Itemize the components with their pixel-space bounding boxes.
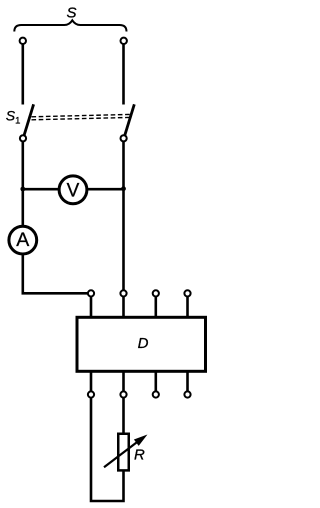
brace over switch S — [14, 20, 126, 31]
wire left from terminal to switch — [21, 41, 24, 105]
D top terminal 4 — [184, 290, 190, 296]
D bottom terminal 3 — [153, 391, 159, 397]
switch S1 left pole blade — [24, 104, 34, 136]
junction node left — [20, 187, 25, 192]
D bottom terminal 1 — [88, 391, 94, 397]
stub D top terminal 3 — [155, 293, 158, 318]
svg-text:D: D — [138, 335, 149, 352]
stub D bottom terminal 1 — [90, 371, 93, 394]
ammeter A — [9, 226, 37, 254]
junction node right — [121, 186, 126, 191]
stub D top terminal 2 — [122, 293, 125, 318]
wire loop from D bottom terminal 1 to resistor bottom — [91, 398, 124, 502]
device box D — [77, 317, 206, 371]
wire left from switch down to corner and to D terminal 1 — [23, 138, 91, 293]
resistor R body — [118, 434, 129, 471]
D top terminal 3 — [153, 290, 159, 296]
terminal right of S — [121, 38, 127, 44]
wire of voltmeter branch — [23, 188, 124, 191]
svg-text:S1: S1 — [6, 108, 21, 127]
svg-text:S: S — [66, 5, 76, 22]
wire right from switch down to D terminal 2 — [122, 138, 125, 293]
stub D top terminal 4 — [186, 293, 189, 318]
terminal left of S — [20, 38, 26, 44]
D top terminal 2 — [120, 290, 126, 296]
D bottom terminal 2 — [120, 391, 126, 397]
svg-text:V: V — [67, 181, 80, 202]
wire from D bottom terminal 2 to resistor top — [122, 398, 125, 437]
D bottom terminal 4 — [184, 391, 190, 397]
resistor R variability arrow shaft — [104, 442, 137, 467]
switch S1 right pole terminal — [121, 135, 127, 141]
switch S1 coupling dashed link — [32, 114, 132, 119]
stub D top terminal 1 — [90, 293, 93, 318]
switch S1 left pole terminal — [20, 135, 26, 141]
wire right from terminal to switch — [122, 41, 125, 105]
switch S1 right pole blade — [125, 104, 135, 136]
stub D bottom terminal 3 — [155, 371, 158, 394]
resistor R arrow head — [135, 436, 146, 446]
stub D bottom terminal 2 — [122, 371, 125, 394]
voltmeter V — [59, 176, 87, 204]
stub D bottom terminal 4 — [186, 371, 189, 394]
svg-text:R: R — [134, 447, 145, 464]
svg-text:A: A — [16, 229, 29, 251]
D top terminal 1 — [88, 290, 94, 296]
